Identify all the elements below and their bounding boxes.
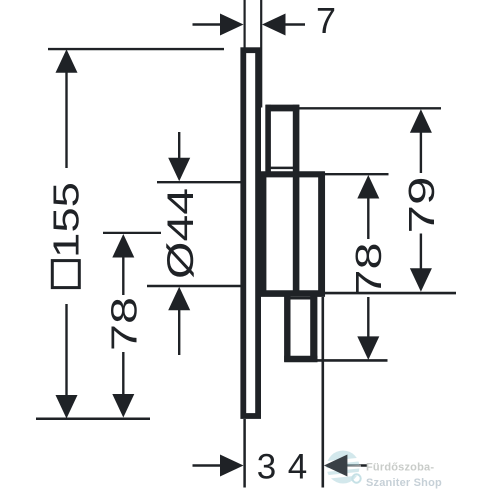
extension line top of plate (155 dim)	[48, 48, 224, 50]
arrow 78 left top (points up)	[112, 234, 134, 258]
dimension 7 tail left	[193, 23, 224, 25]
dimension 78 left line upper	[122, 255, 124, 295]
extension line plate front face (7 dim left)	[244, 0, 246, 49]
upper function block left edge	[265, 105, 271, 176]
arrow 78 right bottom (points down)	[357, 336, 379, 360]
upper function block top edge	[266, 105, 300, 112]
svg-text:79: 79	[401, 177, 442, 234]
arrow 34 left (points right)	[220, 455, 244, 477]
lower function block bottom edge	[284, 356, 317, 363]
lower function block left edge	[284, 294, 290, 362]
arrow 79 bottom (points down)	[410, 268, 432, 292]
dimension 78 right line lower	[367, 297, 369, 339]
watermark icon	[324, 451, 362, 484]
lower function block top thin line	[290, 297, 311, 300]
svg-text:78: 78	[104, 297, 145, 351]
arrow 155 top (points up)	[56, 49, 78, 73]
valve body right edge	[318, 172, 325, 297]
upper function block bottom thin line	[267, 167, 296, 170]
extension line lower Ø44	[147, 285, 256, 288]
extension line bottom of plate (155/78 dims)	[36, 418, 150, 421]
arrow 78 left bottom (points down)	[112, 394, 134, 418]
dimension 34 tail left	[193, 464, 224, 467]
arrow 155 bottom (points down)	[56, 395, 78, 419]
svg-text:78: 78	[348, 243, 389, 297]
arrow 79 top (points up)	[410, 109, 432, 133]
dimension Ø44 stub upper	[178, 132, 180, 162]
extension line 78 right dim bottom	[313, 359, 388, 362]
svg-text:155: 155	[46, 182, 87, 258]
arrow 34 right (points left, over watermark)	[324, 455, 348, 477]
upper function block right edge / body step line	[293, 105, 300, 295]
extension line 79 dim top	[299, 107, 441, 109]
faceplate (rosette side view)	[243, 50, 258, 416]
arrow Ø44 top (points down)	[168, 158, 190, 182]
svg-text:Szaniter Shop: Szaniter Shop	[366, 477, 442, 489]
extension line valve centerline (78 left dim)	[103, 232, 161, 234]
arrow 7 left (points right)	[220, 14, 244, 36]
extension line 79 dim bottom	[324, 292, 456, 295]
dimension 78 left line lower	[122, 352, 124, 396]
extension line upper Ø44	[157, 181, 256, 183]
dimension 79 line lower	[420, 234, 422, 272]
square symbol of 155	[52, 261, 79, 288]
svg-text:7: 7	[316, 0, 344, 41]
svg-text:34: 34	[257, 448, 319, 487]
dimension 7 tail right	[282, 23, 305, 25]
arrow 7 right (points left)	[262, 14, 286, 36]
valve body left edge	[261, 172, 266, 297]
extension line 34 dim right	[321, 297, 324, 488]
dimension 79 line upper	[420, 130, 422, 173]
arrow Ø44 bottom (points up)	[168, 287, 190, 311]
dimension 34 tail right	[346, 464, 369, 467]
svg-text:Ø44: Ø44	[160, 188, 201, 279]
extension line 34 dim left	[243, 419, 246, 488]
extension line body face (7 dim right)	[260, 0, 262, 108]
dimension 155 line lower	[65, 304, 67, 397]
arrow 78 right top (points up)	[357, 175, 379, 199]
dimension 78 right line upper	[367, 196, 369, 239]
lower function block right edge	[310, 294, 317, 362]
dimension 155 line upper	[65, 70, 67, 168]
svg-text:Fürdőszoba-: Fürdőszoba-	[366, 462, 434, 474]
dimension Ø44 stub lower	[178, 307, 180, 355]
valve body top edge	[261, 171, 325, 177]
extension line 78 right dim top	[324, 173, 389, 175]
valve body bottom edge	[261, 290, 325, 297]
